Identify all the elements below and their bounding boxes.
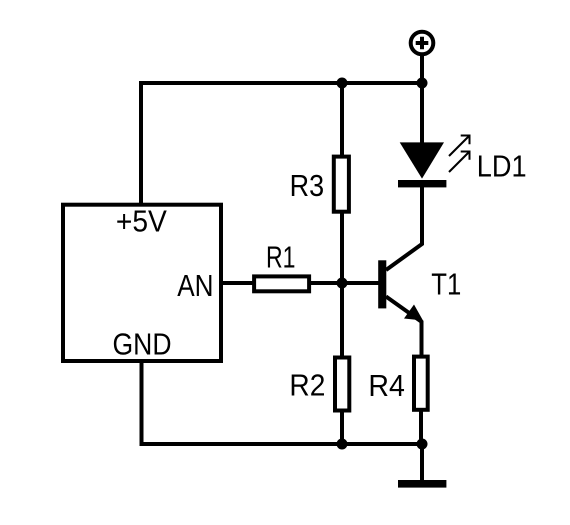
wire power stub xyxy=(420,56,424,83)
node top rail / LED branch junction xyxy=(417,78,428,89)
wire top rail to R3 xyxy=(340,83,344,157)
LED light arrow upper xyxy=(449,136,470,157)
wire AN pin to R1 xyxy=(221,281,254,285)
transistor T1 emitter with arrow xyxy=(386,297,423,358)
svg-text:LD1: LD1 xyxy=(477,148,527,183)
node bottom rail / ground junction xyxy=(417,439,428,450)
svg-text:+5V: +5V xyxy=(116,203,167,238)
wire R1 to transistor base xyxy=(311,281,379,285)
wire ground drop xyxy=(420,444,424,480)
resistor R2 xyxy=(335,358,349,411)
svg-text:R2: R2 xyxy=(289,368,325,403)
svg-text:T1: T1 xyxy=(431,267,461,302)
svg-text:AN: AN xyxy=(177,268,213,303)
resistor R4 xyxy=(414,357,428,410)
LED LD1 diode triangle xyxy=(400,142,444,178)
wire R3 to R2 through base node xyxy=(340,212,344,358)
IC block U1 (+5V / AN / GND) xyxy=(63,205,221,361)
wire R4 to bottom rail xyxy=(419,410,423,444)
node base junction xyxy=(337,278,348,289)
node top rail / R3 junction xyxy=(337,78,348,89)
LED light arrow lower xyxy=(449,152,470,173)
wire top rail with left drop to block xyxy=(141,83,422,203)
transistor T1 base bar xyxy=(378,260,386,308)
ground symbol xyxy=(398,480,446,488)
LED LD1 cathode bar xyxy=(398,180,446,187)
resistor R1 xyxy=(254,276,309,291)
svg-text:GND: GND xyxy=(113,327,172,362)
wire LED anode branch xyxy=(420,83,424,144)
wire R2 to bottom rail xyxy=(340,410,344,444)
svg-text:R4: R4 xyxy=(368,368,405,403)
node bottom rail / R2 junction xyxy=(337,439,348,450)
resistor R3 xyxy=(334,157,349,212)
wire LED cathode to collector xyxy=(386,187,422,270)
svg-text:R3: R3 xyxy=(290,168,325,203)
power supply symbol +V xyxy=(411,32,434,55)
svg-text:R1: R1 xyxy=(266,240,296,275)
wire bottom rail with left riser to block xyxy=(142,363,423,444)
